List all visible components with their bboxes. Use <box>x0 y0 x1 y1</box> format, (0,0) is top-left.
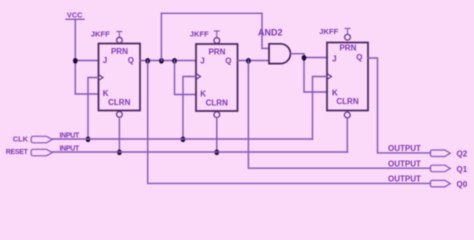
wire VCC to J pin U1 <box>75 60 98 62</box>
wire U1 CLRN to RESET net <box>118 117 120 152</box>
svg-text:J: J <box>200 57 204 66</box>
wire Q0 feedback up and over to AND2 input A <box>161 13 269 60</box>
wire net Q0: U1 Q output to U2 J input <box>140 60 196 62</box>
svg-text:CLRN: CLRN <box>206 98 228 107</box>
wire VCC rail down to J and K of U1 <box>75 19 98 94</box>
svg-text:K: K <box>200 89 206 98</box>
wire Q1 branch down to OUTPUT Q1 <box>248 61 430 169</box>
Q0 output pin symbol <box>430 180 450 187</box>
svg-text:Q0: Q0 <box>457 180 468 189</box>
CLK input pin symbol <box>31 136 52 143</box>
svg-text:PRN: PRN <box>111 47 128 56</box>
svg-text:J: J <box>103 56 107 65</box>
node Q0-a <box>145 58 150 64</box>
VCC power symbol <box>66 11 84 20</box>
node Q0-c <box>172 58 177 64</box>
node AND out junction <box>302 55 307 61</box>
U1 PRN pin stub and bubble <box>117 32 123 44</box>
svg-text:PRN: PRN <box>339 44 356 53</box>
svg-text:Q2: Q2 <box>457 150 468 159</box>
U2 CLRN bubble <box>214 112 220 118</box>
wire Q0 branch down to OUTPUT Q0 <box>148 61 431 184</box>
svg-text:PRN: PRN <box>208 48 225 57</box>
node Q0-b <box>159 58 164 64</box>
wire U3 clock pin to CLK net end <box>313 77 328 140</box>
wire AND2 output to U3 J/K <box>291 54 328 92</box>
U3 PRN pin stub and bubble <box>345 29 351 41</box>
node CLK1 on CLK net <box>86 136 91 142</box>
wire U2 clock pin to CLK net <box>183 77 196 140</box>
Q2 output pin symbol <box>430 150 450 157</box>
AND2 gate U4 <box>269 44 290 64</box>
svg-text:RESET: RESET <box>6 149 29 156</box>
svg-text:CLK: CLK <box>13 135 29 144</box>
wire Q0 branch down to U2 K input <box>175 61 197 95</box>
svg-text:Q: Q <box>356 53 362 62</box>
svg-text:AND2: AND2 <box>258 27 283 37</box>
U3 CLRN bubble <box>344 112 350 118</box>
svg-text:JKFF: JKFF <box>190 30 209 39</box>
svg-text:Q1: Q1 <box>457 165 468 174</box>
svg-text:OUTPUT: OUTPUT <box>388 144 421 153</box>
svg-text:CLRN: CLRN <box>336 97 358 106</box>
U1 CLRN bubble <box>117 112 123 118</box>
wire RESET net <box>52 151 347 153</box>
svg-text:VCC: VCC <box>67 11 83 20</box>
svg-text:CLRN: CLRN <box>108 98 130 107</box>
RESET input pin symbol <box>31 149 52 156</box>
svg-text:Q: Q <box>225 56 231 65</box>
svg-text:Q: Q <box>128 56 134 65</box>
JK flip-flop U1 body <box>99 44 141 111</box>
node CLK2 on CLK net <box>181 136 186 142</box>
JK flip-flop U3 body <box>327 43 368 111</box>
svg-text:OUTPUT: OUTPUT <box>388 175 421 184</box>
svg-text:JKFF: JKFF <box>91 30 110 39</box>
wire net Q2: U3 Q output down to OUTPUT Q2 <box>368 58 431 153</box>
U2 PRN pin stub and bubble <box>214 31 220 43</box>
JK flip-flop U2 body <box>196 44 238 111</box>
wire CLK net <box>52 138 312 140</box>
svg-text:OUTPUT: OUTPUT <box>388 160 421 169</box>
node CLRN2 on RESET net <box>214 149 219 155</box>
Q1 output pin symbol <box>430 165 450 172</box>
wire net Q1: U2 Q output to AND2 input B <box>238 60 270 62</box>
svg-text:K: K <box>103 89 109 98</box>
wire U1 clock pin to CLK net <box>88 78 99 140</box>
svg-text:J: J <box>332 54 336 63</box>
node CLRN1 on RESET net <box>117 149 122 155</box>
wire U3 CLRN to RESET net end <box>346 118 348 152</box>
node junction VCC/J1 <box>73 58 78 64</box>
node Q1-a <box>246 58 251 64</box>
svg-text:JKFF: JKFF <box>319 27 338 36</box>
wire AND2 output branch to U3 J pin <box>304 57 327 59</box>
wire U2 CLRN to RESET net <box>216 118 218 152</box>
